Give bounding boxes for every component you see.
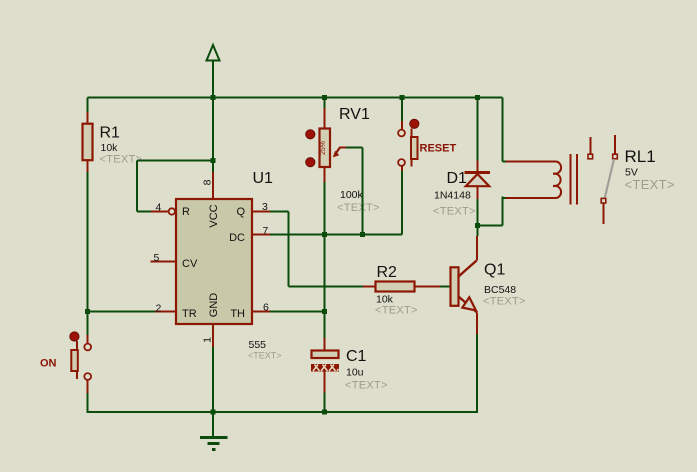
svg-text:<TEXT>: <TEXT> xyxy=(433,206,476,218)
node junction DC/RV1 bottom xyxy=(322,232,327,237)
diode D1 column xyxy=(477,98,479,237)
wire TR to left column xyxy=(88,311,156,313)
relay RL1 contact pole pin xyxy=(613,135,618,159)
pin 1 GND stub xyxy=(212,324,214,347)
svg-text:R2: R2 xyxy=(377,264,398,281)
pin 2 TR stub xyxy=(155,311,176,313)
svg-text:TR: TR xyxy=(182,308,197,320)
svg-text:GND: GND xyxy=(208,293,220,318)
wire C1 to ground rail xyxy=(324,393,326,414)
node junction VCC column y=160.6 xyxy=(211,158,216,163)
pin 6 TH stub xyxy=(252,311,270,313)
svg-text:R1: R1 xyxy=(100,125,121,142)
actuator blob xyxy=(410,119,419,128)
button RESET xyxy=(398,95,419,171)
resistor R1 xyxy=(83,112,93,172)
relay RL1 contact NC pin xyxy=(588,137,593,159)
svg-text:6: 6 xyxy=(263,302,269,314)
relay RL1 coil xyxy=(506,154,577,205)
svg-text:5: 5 xyxy=(154,252,160,264)
potentiometer RV1 xyxy=(320,108,347,182)
svg-text:8: 8 xyxy=(202,179,214,185)
button ON xyxy=(70,312,91,394)
svg-text:<TEXT>: <TEXT> xyxy=(483,296,526,308)
node junction D1 rail xyxy=(475,95,480,100)
wire pin4-to-VCC net xyxy=(137,161,213,212)
svg-text:RL1: RL1 xyxy=(625,147,656,166)
wire R1 column left xyxy=(87,98,89,337)
svg-text:BC548: BC548 xyxy=(484,284,516,296)
svg-text:555: 555 xyxy=(249,339,267,351)
svg-text:<TEXT>: <TEXT> xyxy=(248,351,282,361)
wire ground rail xyxy=(88,411,478,413)
svg-text:2: 2 xyxy=(156,303,162,315)
wire RV1 wiper to DC row xyxy=(346,148,363,235)
svg-text:RV1: RV1 xyxy=(339,106,370,123)
wire emitter to ground rail xyxy=(476,334,478,413)
svg-text:R: R xyxy=(182,206,190,218)
wire DC row to RESET column xyxy=(270,171,402,235)
svg-text:C1: C1 xyxy=(346,348,367,365)
node junction ground rail at x=213 xyxy=(211,410,216,415)
pin 5 CV stub xyxy=(151,261,177,263)
relay core bars xyxy=(570,154,572,205)
svg-text:<TEXT>: <TEXT> xyxy=(625,177,675,192)
svg-text:1N4148: 1N4148 xyxy=(434,190,471,202)
relay RL1 bottom contact pad and stub xyxy=(601,198,606,224)
relay RL1 movable contact (gray) xyxy=(605,159,615,199)
svg-text:TH: TH xyxy=(230,308,245,320)
svg-text:100k: 100k xyxy=(340,189,364,201)
svg-text:Q1: Q1 xyxy=(484,262,505,279)
node junction power rail at x=213 xyxy=(211,95,216,100)
pin 4 R stub with inversion bubble xyxy=(151,208,175,214)
node junction D1/relay/collector xyxy=(475,223,480,228)
transistor Q1 xyxy=(451,236,478,334)
svg-text:CV: CV xyxy=(182,258,198,270)
node junction RV1 top rail xyxy=(322,95,327,100)
pin 7 DC stub xyxy=(252,234,270,236)
resistor R2 xyxy=(363,282,440,292)
capacitor C1 xyxy=(312,338,339,393)
node junction DC/RV1 wiper xyxy=(360,232,365,237)
svg-text:<TEXT>: <TEXT> xyxy=(337,202,380,214)
wire RV1/C1 column xyxy=(324,98,326,339)
relay RL1 coil feed from rail xyxy=(478,98,507,226)
svg-text:7: 7 xyxy=(263,225,269,237)
svg-text:Q: Q xyxy=(236,206,245,218)
svg-text:VCC: VCC xyxy=(208,204,220,227)
wire TH row to C1 column xyxy=(270,311,325,313)
pin 8 VCC stub xyxy=(212,172,214,199)
node junction ground rail at C1 xyxy=(322,410,327,415)
svg-text:<TEXT>: <TEXT> xyxy=(100,154,143,166)
node junction TH/C1 column xyxy=(322,309,327,314)
svg-text:<TEXT>: <TEXT> xyxy=(375,305,418,317)
svg-text:10k: 10k xyxy=(101,142,119,154)
svg-text:3: 3 xyxy=(262,201,268,213)
wire rail to RESET top xyxy=(401,98,403,122)
wire IC pin1 to ground rail xyxy=(212,347,214,436)
wire Q output down to R2 row xyxy=(270,212,363,287)
RV1 tweak blob up xyxy=(306,130,315,139)
svg-text:D1: D1 xyxy=(447,170,468,187)
svg-text:DC: DC xyxy=(229,232,245,244)
ground symbol xyxy=(200,438,228,450)
actuator blob xyxy=(70,332,79,341)
diode D1 xyxy=(465,160,491,199)
IC U1 555 body xyxy=(176,199,252,324)
svg-text:10u: 10u xyxy=(346,367,364,379)
svg-text:25%: 25% xyxy=(320,141,327,155)
svg-text:U1: U1 xyxy=(253,170,274,187)
pin 3 Q stub xyxy=(252,211,270,213)
svg-text:<TEXT>: <TEXT> xyxy=(345,380,388,392)
wire ON to ground rail xyxy=(87,393,89,413)
wiper arrow xyxy=(335,148,340,155)
svg-text:1: 1 xyxy=(202,337,214,343)
RV1 tweak blob down xyxy=(306,158,315,167)
svg-text:ON: ON xyxy=(40,358,57,370)
svg-text:4: 4 xyxy=(156,202,162,214)
wire R2 to Q1 base xyxy=(440,286,450,288)
node junction TR left column xyxy=(85,309,90,314)
power symbol VCC arrow xyxy=(207,45,220,172)
wire top VCC rail xyxy=(88,97,503,99)
svg-text:RESET: RESET xyxy=(420,143,457,155)
node junction RESET rail xyxy=(400,95,405,100)
